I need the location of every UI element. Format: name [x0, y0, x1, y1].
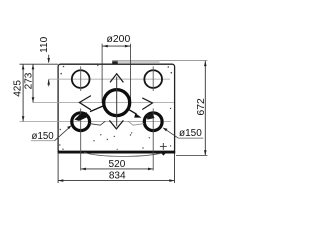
svg-text:ø200: ø200: [107, 34, 131, 45]
svg-text:834: 834: [109, 171, 126, 182]
svg-text:273: 273: [24, 72, 35, 89]
svg-text:520: 520: [109, 159, 126, 170]
svg-text:110: 110: [39, 36, 50, 52]
svg-text:425: 425: [13, 80, 24, 97]
svg-text:ø150: ø150: [32, 131, 55, 142]
svg-text:672: 672: [196, 98, 207, 115]
svg-text:ø150: ø150: [179, 128, 202, 139]
